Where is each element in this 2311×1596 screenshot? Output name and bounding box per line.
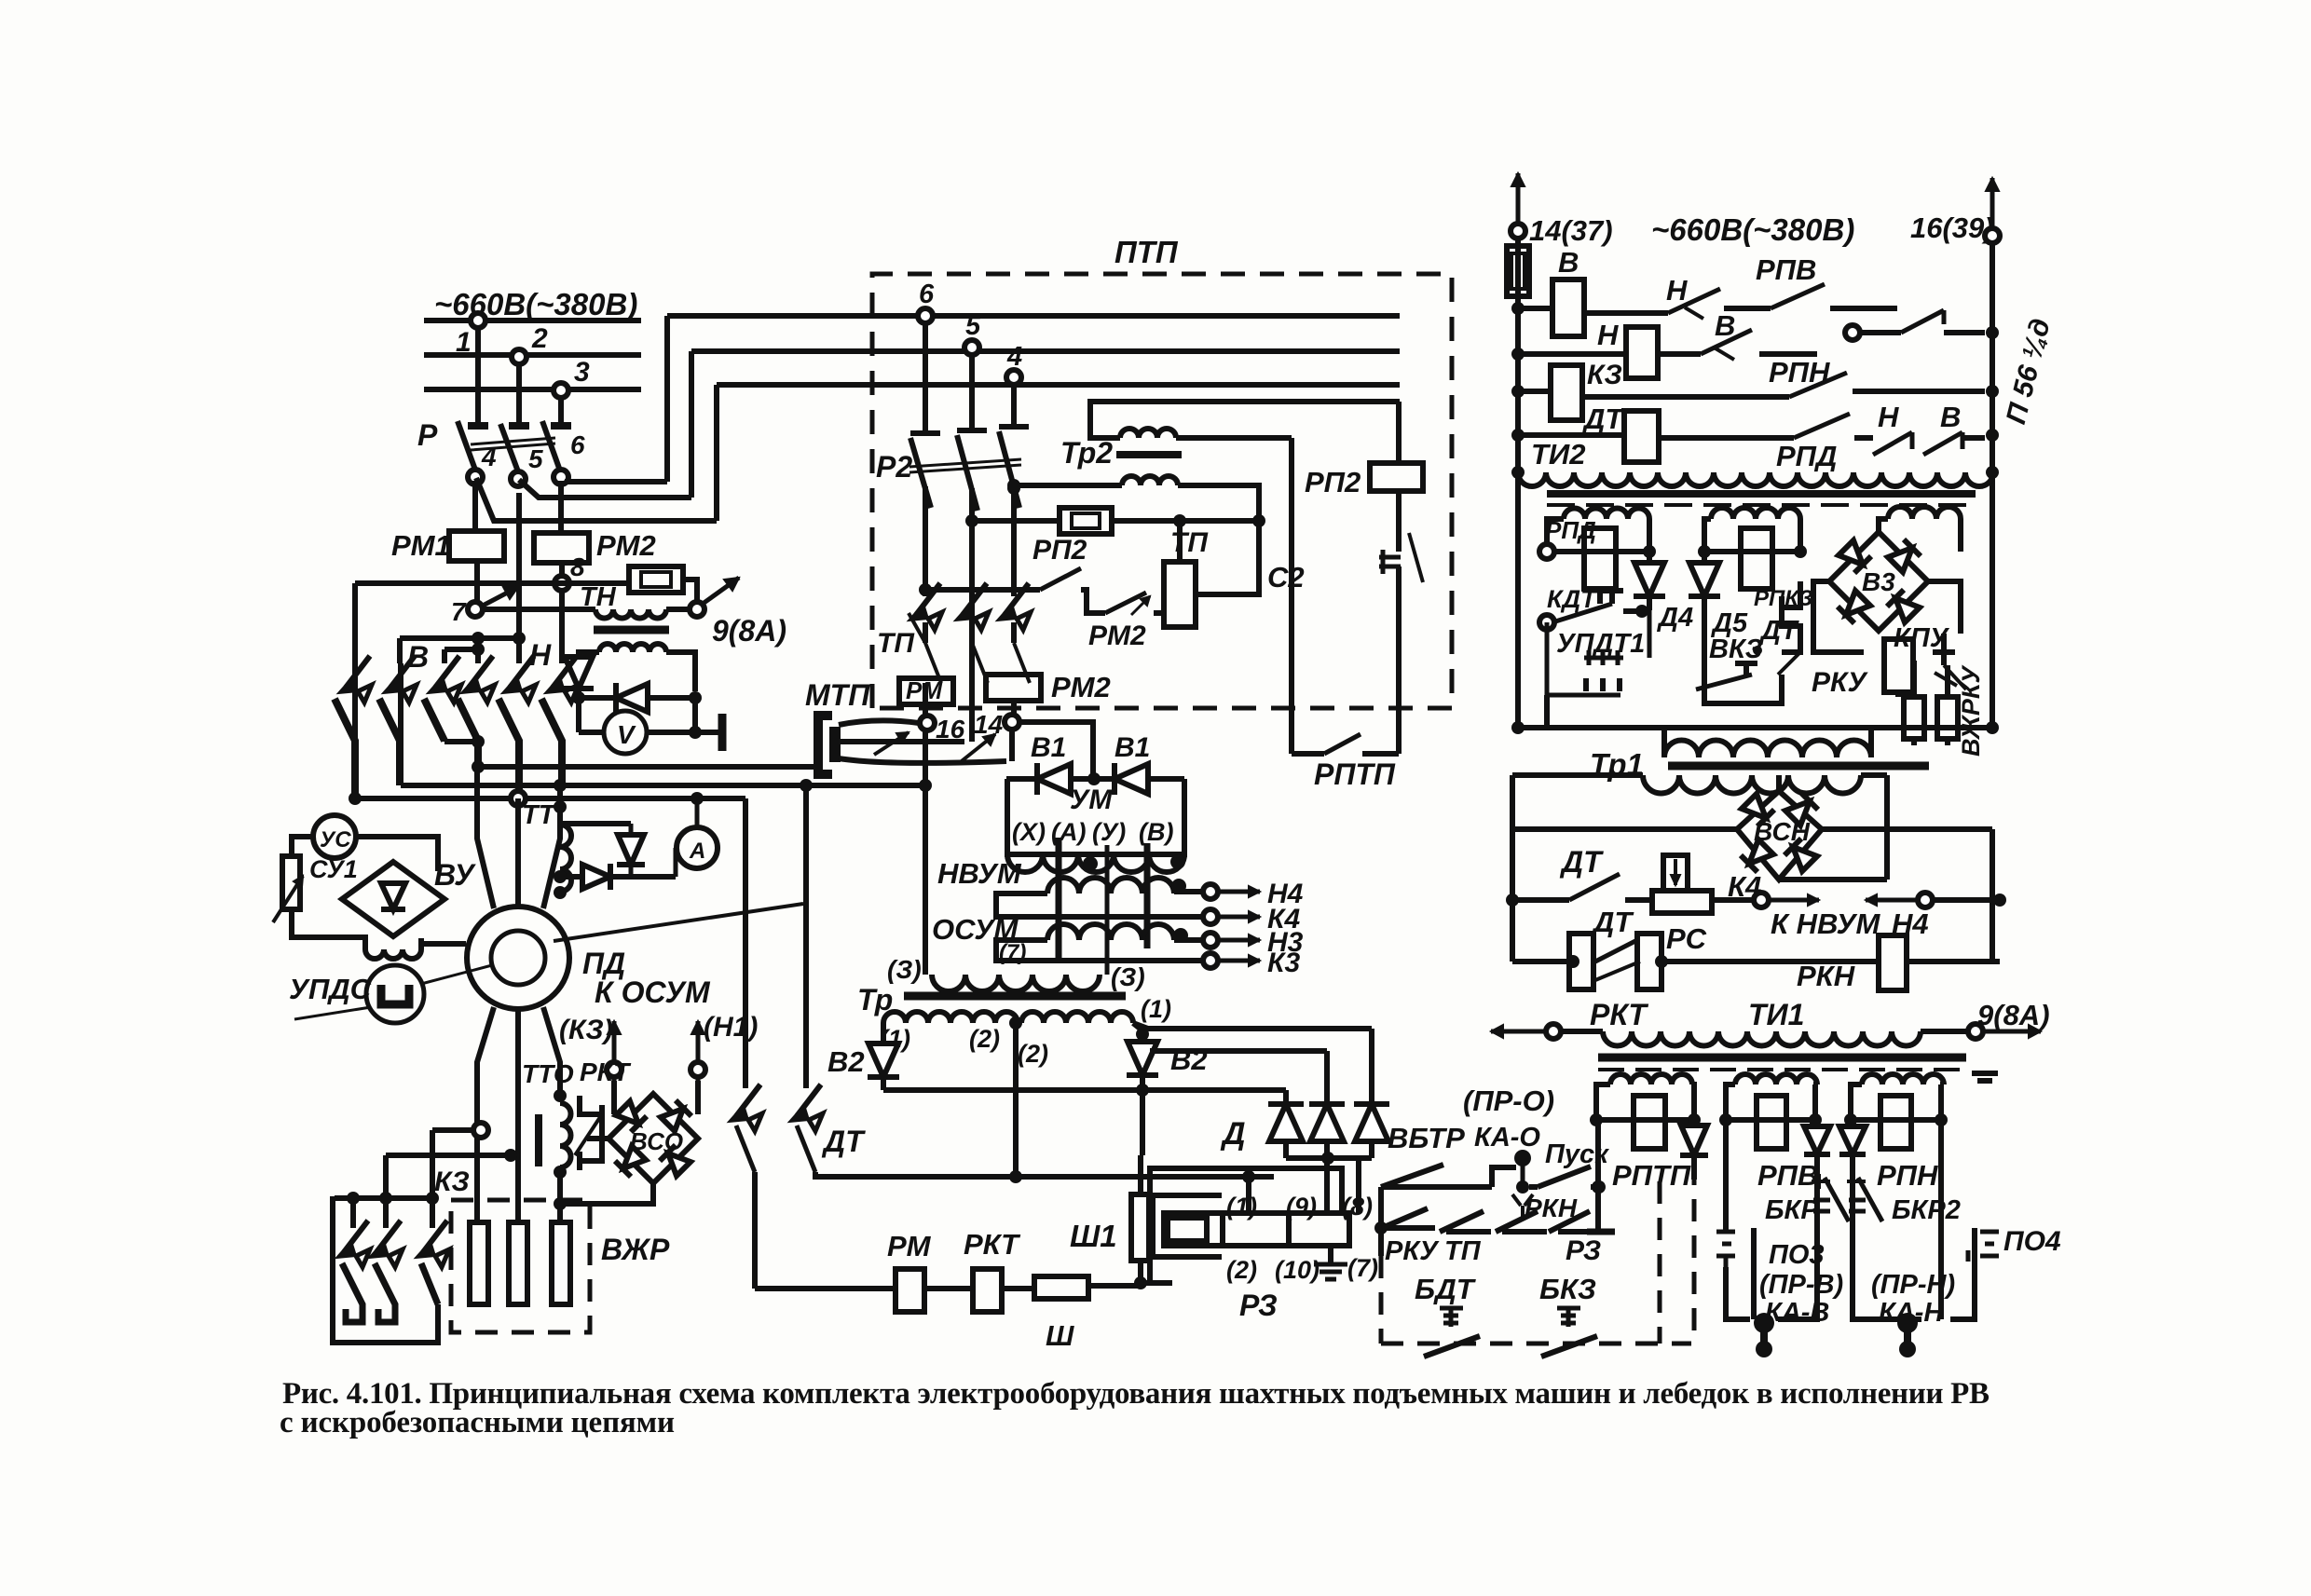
label RZ lower	[1239, 1289, 1278, 1322]
label RPD sub1	[1545, 516, 1596, 544]
svg-text:ТП: ТП	[1170, 527, 1209, 558]
wire node8 line left	[355, 580, 629, 586]
wire drop phase2 to switch P	[516, 364, 522, 426]
switch R blade 1	[458, 421, 476, 472]
contact RP2	[1040, 568, 1081, 590]
RPTP secondary winding	[1610, 1074, 1692, 1084]
auxiliary pair circle	[1845, 325, 1860, 340]
contact KDT	[1539, 591, 1623, 630]
label VU	[434, 858, 476, 892]
svg-text:БКЗ: БКЗ	[1539, 1273, 1596, 1305]
capacitor PO4 right	[1968, 1228, 1999, 1284]
wire phase3 down to RM2	[558, 481, 564, 533]
Tr center tap	[1009, 1016, 1022, 1030]
svg-text:В1: В1	[1114, 732, 1150, 763]
wire RPN right down	[1938, 1120, 1944, 1226]
label 9(8A) right	[1977, 999, 2050, 1031]
label Tr2	[1060, 436, 1113, 470]
node 16	[920, 715, 965, 743]
svg-text:ВСО: ВСО	[630, 1127, 683, 1155]
wire V3 left	[1813, 581, 1864, 652]
label (KZ)	[559, 1015, 613, 1045]
svg-text:ВСН: ВСН	[1754, 817, 1811, 846]
wire sub2 bottom	[1704, 675, 1782, 728]
contact Pusk	[1538, 1166, 1606, 1194]
svg-text:ТИ2: ТИ2	[1531, 438, 1585, 471]
label ~660V right	[1651, 212, 1854, 247]
RPTP bus	[1590, 1113, 1701, 1126]
wire stub under phase2	[516, 493, 522, 663]
wire thyristor to diode line	[576, 689, 581, 732]
resistor sub3 b	[1937, 665, 1958, 739]
NVUM winding	[1047, 878, 1174, 893]
contact RKT motor	[575, 1096, 602, 1170]
svg-text:16(39): 16(39)	[1910, 211, 1994, 244]
label D5	[1710, 608, 1748, 638]
actuator MTP bracket	[818, 716, 835, 774]
svg-text:ВУ: ВУ	[434, 858, 476, 892]
terminal N4	[1866, 893, 2000, 907]
svg-text:(ПР-В): (ПР-В)	[1759, 1270, 1843, 1300]
label RPN coil	[1877, 1159, 1938, 1192]
wire RP2 vertical	[1396, 402, 1402, 552]
motor shaft line	[554, 904, 803, 941]
contact blades V group	[335, 699, 444, 798]
label (7)	[999, 940, 1026, 965]
wire P2 pole1 down	[923, 486, 928, 596]
svg-text:ВЖРКУ: ВЖРКУ	[1957, 665, 1985, 757]
current transformer TT coil	[560, 825, 571, 892]
resistor VZHR 3	[552, 1222, 570, 1304]
label PD	[582, 947, 625, 980]
MTP link mid	[839, 596, 972, 742]
node below thyristor	[572, 691, 585, 704]
svg-text:РПН: РПН	[1877, 1159, 1938, 1192]
svg-text:14(37): 14(37)	[1529, 214, 1613, 247]
wire sec right down	[666, 652, 695, 691]
transformer TI1 winding	[1603, 1031, 1921, 1045]
svg-text:РПВ: РПВ	[1756, 253, 1816, 286]
svg-text:С2: С2	[1267, 561, 1305, 593]
wire left branch from node8 line	[352, 583, 358, 663]
resistor SU1	[273, 856, 303, 922]
svg-text:ТИ1: ТИ1	[1748, 998, 1804, 1031]
wire bus line 2	[424, 352, 641, 358]
NVUM left loop and K4	[996, 893, 1300, 934]
wire row1	[1518, 308, 1668, 313]
capacitor C2	[1267, 533, 1423, 754]
wire Tr2 sec right	[1178, 485, 1265, 527]
label RS	[1666, 922, 1707, 955]
label RPV coil	[1757, 1159, 1818, 1192]
RPTP frame	[1596, 1084, 1694, 1120]
wire V2 left to bus	[881, 1073, 886, 1090]
svg-text:ДТ: ДТ	[821, 1125, 866, 1158]
arrow at node7	[483, 587, 518, 606]
label TN	[580, 582, 617, 612]
node 5	[511, 444, 543, 486]
NVUM vertical bar B	[1144, 843, 1151, 948]
svg-text:РКУ: РКУ	[1812, 667, 1868, 698]
svg-text:МТП: МТП	[805, 678, 870, 712]
wire bus line 3	[424, 387, 641, 392]
label V3	[1862, 567, 1895, 596]
label 14(37)	[1529, 214, 1613, 247]
node rail row2	[1511, 348, 1525, 361]
label TT	[522, 800, 567, 830]
wire DT right join	[815, 1172, 1016, 1177]
svg-text:(КЗ): (КЗ)	[559, 1015, 613, 1045]
wire TT loop top	[560, 824, 631, 837]
wire PO4 bracket	[1853, 1120, 1975, 1319]
svg-text:В3: В3	[1862, 567, 1895, 596]
contact arrow V-N group 5	[502, 656, 536, 703]
contact arrow V-N group 6	[545, 656, 579, 703]
wire bottom row	[1512, 959, 2000, 964]
label Tr1	[1590, 747, 1644, 782]
svg-text:3: 3	[574, 357, 590, 388]
svg-text:Н: Н	[1666, 274, 1688, 307]
label BKR	[1765, 1195, 1819, 1225]
svg-text:ДТ: ДТ	[1758, 616, 1799, 646]
wire DT left down	[752, 1172, 758, 1289]
node 8	[554, 552, 585, 591]
node 14	[974, 710, 1019, 739]
label KA-O	[1474, 1123, 1540, 1153]
label DT lower	[1591, 906, 1634, 938]
svg-text:~660В(~380В): ~660В(~380В)	[1651, 212, 1854, 247]
label Tr	[857, 983, 893, 1016]
wire V2 right to bus	[1136, 1071, 1149, 1097]
svg-text:Р2: Р2	[876, 450, 912, 484]
svg-text:(Н1): (Н1)	[704, 1012, 758, 1043]
label (1) chain	[1226, 1193, 1257, 1221]
resistor sub3 a	[1904, 697, 1924, 739]
NVUM polarity dots	[1083, 854, 1188, 943]
resistor RS horizontal	[1652, 891, 1712, 913]
transformer TI2 primary	[1511, 439, 1999, 486]
wire bottom rail upper section	[1511, 721, 1999, 734]
sub3 secondary winding	[1888, 507, 1961, 519]
wire P2 pole3 down	[1007, 482, 1020, 596]
fuse TN primary	[629, 566, 683, 593]
relay coil RPV	[1757, 1096, 1786, 1149]
svg-text:ТП: ТП	[877, 628, 915, 659]
contact DT mid	[1569, 874, 1620, 900]
label RPD	[1776, 440, 1837, 472]
sub1 secondary winding	[1564, 509, 1649, 520]
label RM2 chain	[1088, 621, 1146, 651]
label N row4	[1878, 401, 1899, 433]
diode voltmeter branch	[579, 683, 702, 713]
margin mark P56	[2001, 316, 2057, 428]
wire RP2 chain	[919, 583, 1040, 596]
label RKN fork	[1525, 1194, 1578, 1222]
arrow (KZ)	[607, 1021, 622, 1081]
label KA-N	[1879, 1298, 1944, 1328]
wire motor feed 1	[477, 767, 494, 908]
contacts N V row4	[1854, 429, 1999, 455]
node 4 PTP	[1006, 342, 1022, 385]
wire RM2 to 14	[1011, 701, 1017, 715]
svg-text:ДТ: ДТ	[1559, 845, 1604, 879]
contact arrow V-N group 3	[428, 656, 461, 703]
RPV frame	[1726, 1084, 1815, 1120]
label D4	[1656, 603, 1693, 633]
wire mid row left	[1512, 897, 1569, 903]
svg-text:(2): (2)	[969, 1025, 1000, 1053]
label RPN	[1769, 356, 1830, 389]
label V contact row2	[1715, 309, 1735, 342]
wire DT drops	[745, 785, 806, 1088]
contact block RKT	[1566, 934, 1668, 989]
contact N row1	[1668, 289, 1720, 319]
node 3 terminal	[554, 357, 590, 398]
svg-text:ТТО: ТТО	[522, 1059, 574, 1088]
svg-text:В: В	[1558, 246, 1579, 279]
label RKN right	[1797, 960, 1855, 992]
wire row4	[1518, 435, 1794, 438]
label VKZ	[1709, 634, 1763, 664]
wire right branch down	[692, 698, 698, 732]
svg-text:ВБТР: ВБТР	[1388, 1122, 1465, 1154]
wire to ground	[1328, 1246, 1333, 1264]
diode D4	[1634, 552, 1665, 610]
label VZHR	[601, 1233, 670, 1266]
svg-text:ТТ: ТТ	[522, 800, 557, 830]
node 6	[554, 430, 585, 484]
wire pole4 run to riser	[476, 478, 717, 521]
svg-text:(2): (2)	[1018, 1040, 1048, 1068]
wire sec right tap	[1133, 1023, 1149, 1042]
wire UM top edge	[1006, 772, 1184, 785]
label RPTP coil	[1612, 1159, 1691, 1192]
svg-text:РПТП: РПТП	[1612, 1159, 1691, 1192]
wire ladder stub 1	[400, 632, 526, 663]
switch BDT	[1424, 1308, 1480, 1357]
diode D1	[1268, 1090, 1304, 1158]
contact arrow P2 3	[997, 583, 1031, 630]
wire tap bus right	[1016, 1170, 1274, 1183]
label BKR2	[1892, 1195, 1961, 1225]
svg-text:РМ2: РМ2	[596, 529, 656, 562]
pushbutton KA-N	[1897, 1313, 1918, 1357]
wire TN coil to terminal	[666, 607, 690, 612]
chassis bar	[695, 714, 722, 751]
switch BKZ	[1541, 1308, 1597, 1357]
node rail row1	[1511, 302, 1525, 315]
arrow (N1)	[691, 1021, 705, 1081]
svg-text:КЗ: КЗ	[1587, 360, 1622, 390]
NVUM vertical bar A	[1056, 838, 1062, 960]
wire net4 horizontal to PTP	[717, 382, 1400, 388]
Sh1 chain boxes	[1164, 1213, 1349, 1246]
label TTO	[522, 1059, 574, 1088]
label (2) left	[969, 1025, 1000, 1053]
label K NVUM	[1771, 907, 1880, 940]
label (PR-N)	[1871, 1270, 1955, 1300]
relay coil V	[1552, 246, 1584, 336]
wire chain to TP coil	[1154, 610, 1164, 616]
label (3) left	[887, 955, 922, 984]
wire bus line 1	[424, 318, 641, 323]
svg-text:6: 6	[919, 280, 935, 309]
label DT middle	[821, 1125, 866, 1158]
diode D3	[1354, 1104, 1389, 1158]
arrow to 16	[874, 732, 909, 755]
wire Tr1 sec right	[1861, 772, 1887, 778]
label RPV	[1756, 253, 1816, 286]
label TI2	[1531, 438, 1585, 471]
wire chain connections	[1142, 1090, 1359, 1213]
UM wire U tap	[1105, 845, 1110, 975]
label (8) chain	[1342, 1193, 1373, 1221]
label UPDT1	[1556, 629, 1645, 659]
label (1) right	[1141, 995, 1171, 1023]
contact RPTP	[1292, 734, 1399, 754]
svg-text:(З): (З)	[1111, 962, 1145, 991]
transformer TN secondary coil	[599, 644, 666, 652]
fuse left rail	[1507, 246, 1529, 296]
svg-text:РПВ: РПВ	[1757, 1159, 1818, 1192]
relay RM1	[391, 529, 504, 562]
terminal circle 9(8A)	[690, 602, 704, 617]
transformer Tr1 primary	[1664, 728, 1871, 757]
node 6 PTP	[918, 280, 935, 323]
svg-text:УС: УС	[320, 827, 351, 853]
wire long horizontal to Tr feed	[401, 779, 925, 792]
UPDS bracket symbol	[381, 985, 409, 1004]
wire motor down feeds	[477, 1007, 560, 1222]
contact RPN	[1789, 373, 1999, 398]
label TP contacts	[877, 628, 915, 659]
label KA-V	[1765, 1298, 1829, 1328]
label BDT	[1415, 1273, 1477, 1305]
relay RM lower	[896, 1269, 924, 1312]
contact arrow V-N group 4	[461, 656, 495, 703]
transformer Tr primary	[932, 975, 1100, 991]
label (PR-O)	[1463, 1084, 1554, 1117]
svg-text:14: 14	[974, 710, 1004, 739]
svg-text:Р: Р	[417, 418, 438, 452]
resistor Sh	[1034, 1276, 1088, 1352]
Tr2 loop top	[1090, 402, 1400, 438]
contact arrow DT 2	[789, 1084, 823, 1131]
transformer Tr2 primary	[1120, 429, 1176, 438]
wire US right	[356, 837, 438, 871]
wire row2	[1518, 351, 1701, 357]
svg-text:ПТП: ПТП	[1114, 235, 1179, 269]
svg-text:РМ2: РМ2	[1088, 621, 1146, 651]
wire DC bus	[883, 1087, 1286, 1093]
arrow up right rail	[1985, 178, 2000, 243]
relay coil RPN	[1880, 1096, 1911, 1149]
label NVUM	[937, 857, 1022, 890]
diode D5	[1689, 552, 1720, 634]
svg-text:Н: Н	[1878, 401, 1899, 433]
svg-text:Д4: Д4	[1656, 603, 1693, 633]
svg-text:РКТ: РКТ	[1590, 998, 1648, 1031]
Sh1 bracket	[1153, 1195, 1222, 1257]
UPDT1 dashes	[1586, 678, 1620, 691]
wire node7 to TN coil	[483, 607, 595, 612]
label UM	[1070, 784, 1113, 815]
caption line 1	[282, 1377, 1990, 1411]
diode V1 right	[1114, 763, 1148, 795]
wire RS row	[1625, 897, 1754, 903]
svg-text:9(8А): 9(8А)	[1977, 999, 2050, 1031]
contact blades KZ	[342, 1263, 438, 1322]
V3 diodes	[1838, 539, 1921, 623]
label 9(8A) left	[712, 614, 786, 648]
wire OSUM out N3	[1174, 927, 1304, 958]
relay coil RKN	[1879, 935, 1907, 990]
TI1 left arrow	[1491, 1024, 1603, 1039]
contact blades DT	[736, 1125, 815, 1172]
svg-text:РЗ: РЗ	[1566, 1235, 1601, 1266]
contact RZ chain	[1549, 1211, 1601, 1266]
transformer Tr secondary left	[883, 1012, 1018, 1023]
switch R blade 3	[542, 421, 561, 473]
VSN diodes	[1741, 793, 1818, 872]
wire (1) right run	[1133, 438, 1372, 1104]
relay coil N	[1597, 319, 1658, 378]
svg-text:К НВУМ: К НВУМ	[1771, 907, 1880, 940]
svg-text:ПО4: ПО4	[2003, 1226, 2061, 1257]
label RKT upper	[580, 1057, 632, 1086]
dashed box VZHR	[451, 1200, 590, 1332]
svg-text:НВУМ: НВУМ	[937, 857, 1022, 890]
rectifier VU diamond	[342, 862, 444, 936]
wire V left	[579, 730, 604, 735]
rectifier VSN diamond	[1737, 791, 1822, 880]
svg-text:РКУ: РКУ	[1385, 1236, 1440, 1266]
diode V2 right	[1127, 1042, 1208, 1076]
label RPTP	[1314, 757, 1396, 791]
diode D2	[1309, 1051, 1345, 1213]
wire sub3 bottoms	[1914, 739, 1948, 745]
wire KZ bus	[335, 1192, 439, 1228]
wire riser net6	[664, 316, 670, 482]
label R	[417, 418, 438, 452]
label (3) right	[1111, 962, 1145, 991]
sub3 frame	[1879, 519, 1961, 552]
relay RM2	[534, 529, 656, 563]
wire KZ taps	[386, 1123, 517, 1198]
svg-text:(В): (В)	[1139, 818, 1173, 846]
relay coil RP2	[1370, 463, 1423, 491]
svg-text:4: 4	[1006, 342, 1022, 372]
svg-text:(10): (10)	[1275, 1256, 1320, 1284]
rectifier VSO diamond	[609, 1094, 698, 1183]
label PO4	[2003, 1226, 2061, 1257]
voltmeter V	[604, 711, 647, 754]
svg-text:РМ: РМ	[887, 1230, 932, 1262]
svg-text:К3: К3	[1267, 948, 1300, 978]
contact RPV	[1724, 284, 1897, 308]
svg-text:РПД: РПД	[1776, 440, 1837, 472]
contact RPD	[1794, 414, 1850, 438]
RZ block outline	[1150, 1168, 1342, 1283]
slide contact BKR2	[1847, 1178, 1882, 1221]
wire 14 down join	[1009, 730, 1015, 761]
svg-text:(9): (9)	[1286, 1193, 1317, 1221]
Tr2 primary right	[1176, 435, 1292, 441]
svg-text:(X): (X)	[1012, 818, 1046, 846]
svg-text:(З): (З)	[887, 955, 922, 984]
svg-text:БКР2: БКР2	[1892, 1195, 1961, 1225]
relay coil RKU	[1884, 639, 1913, 692]
